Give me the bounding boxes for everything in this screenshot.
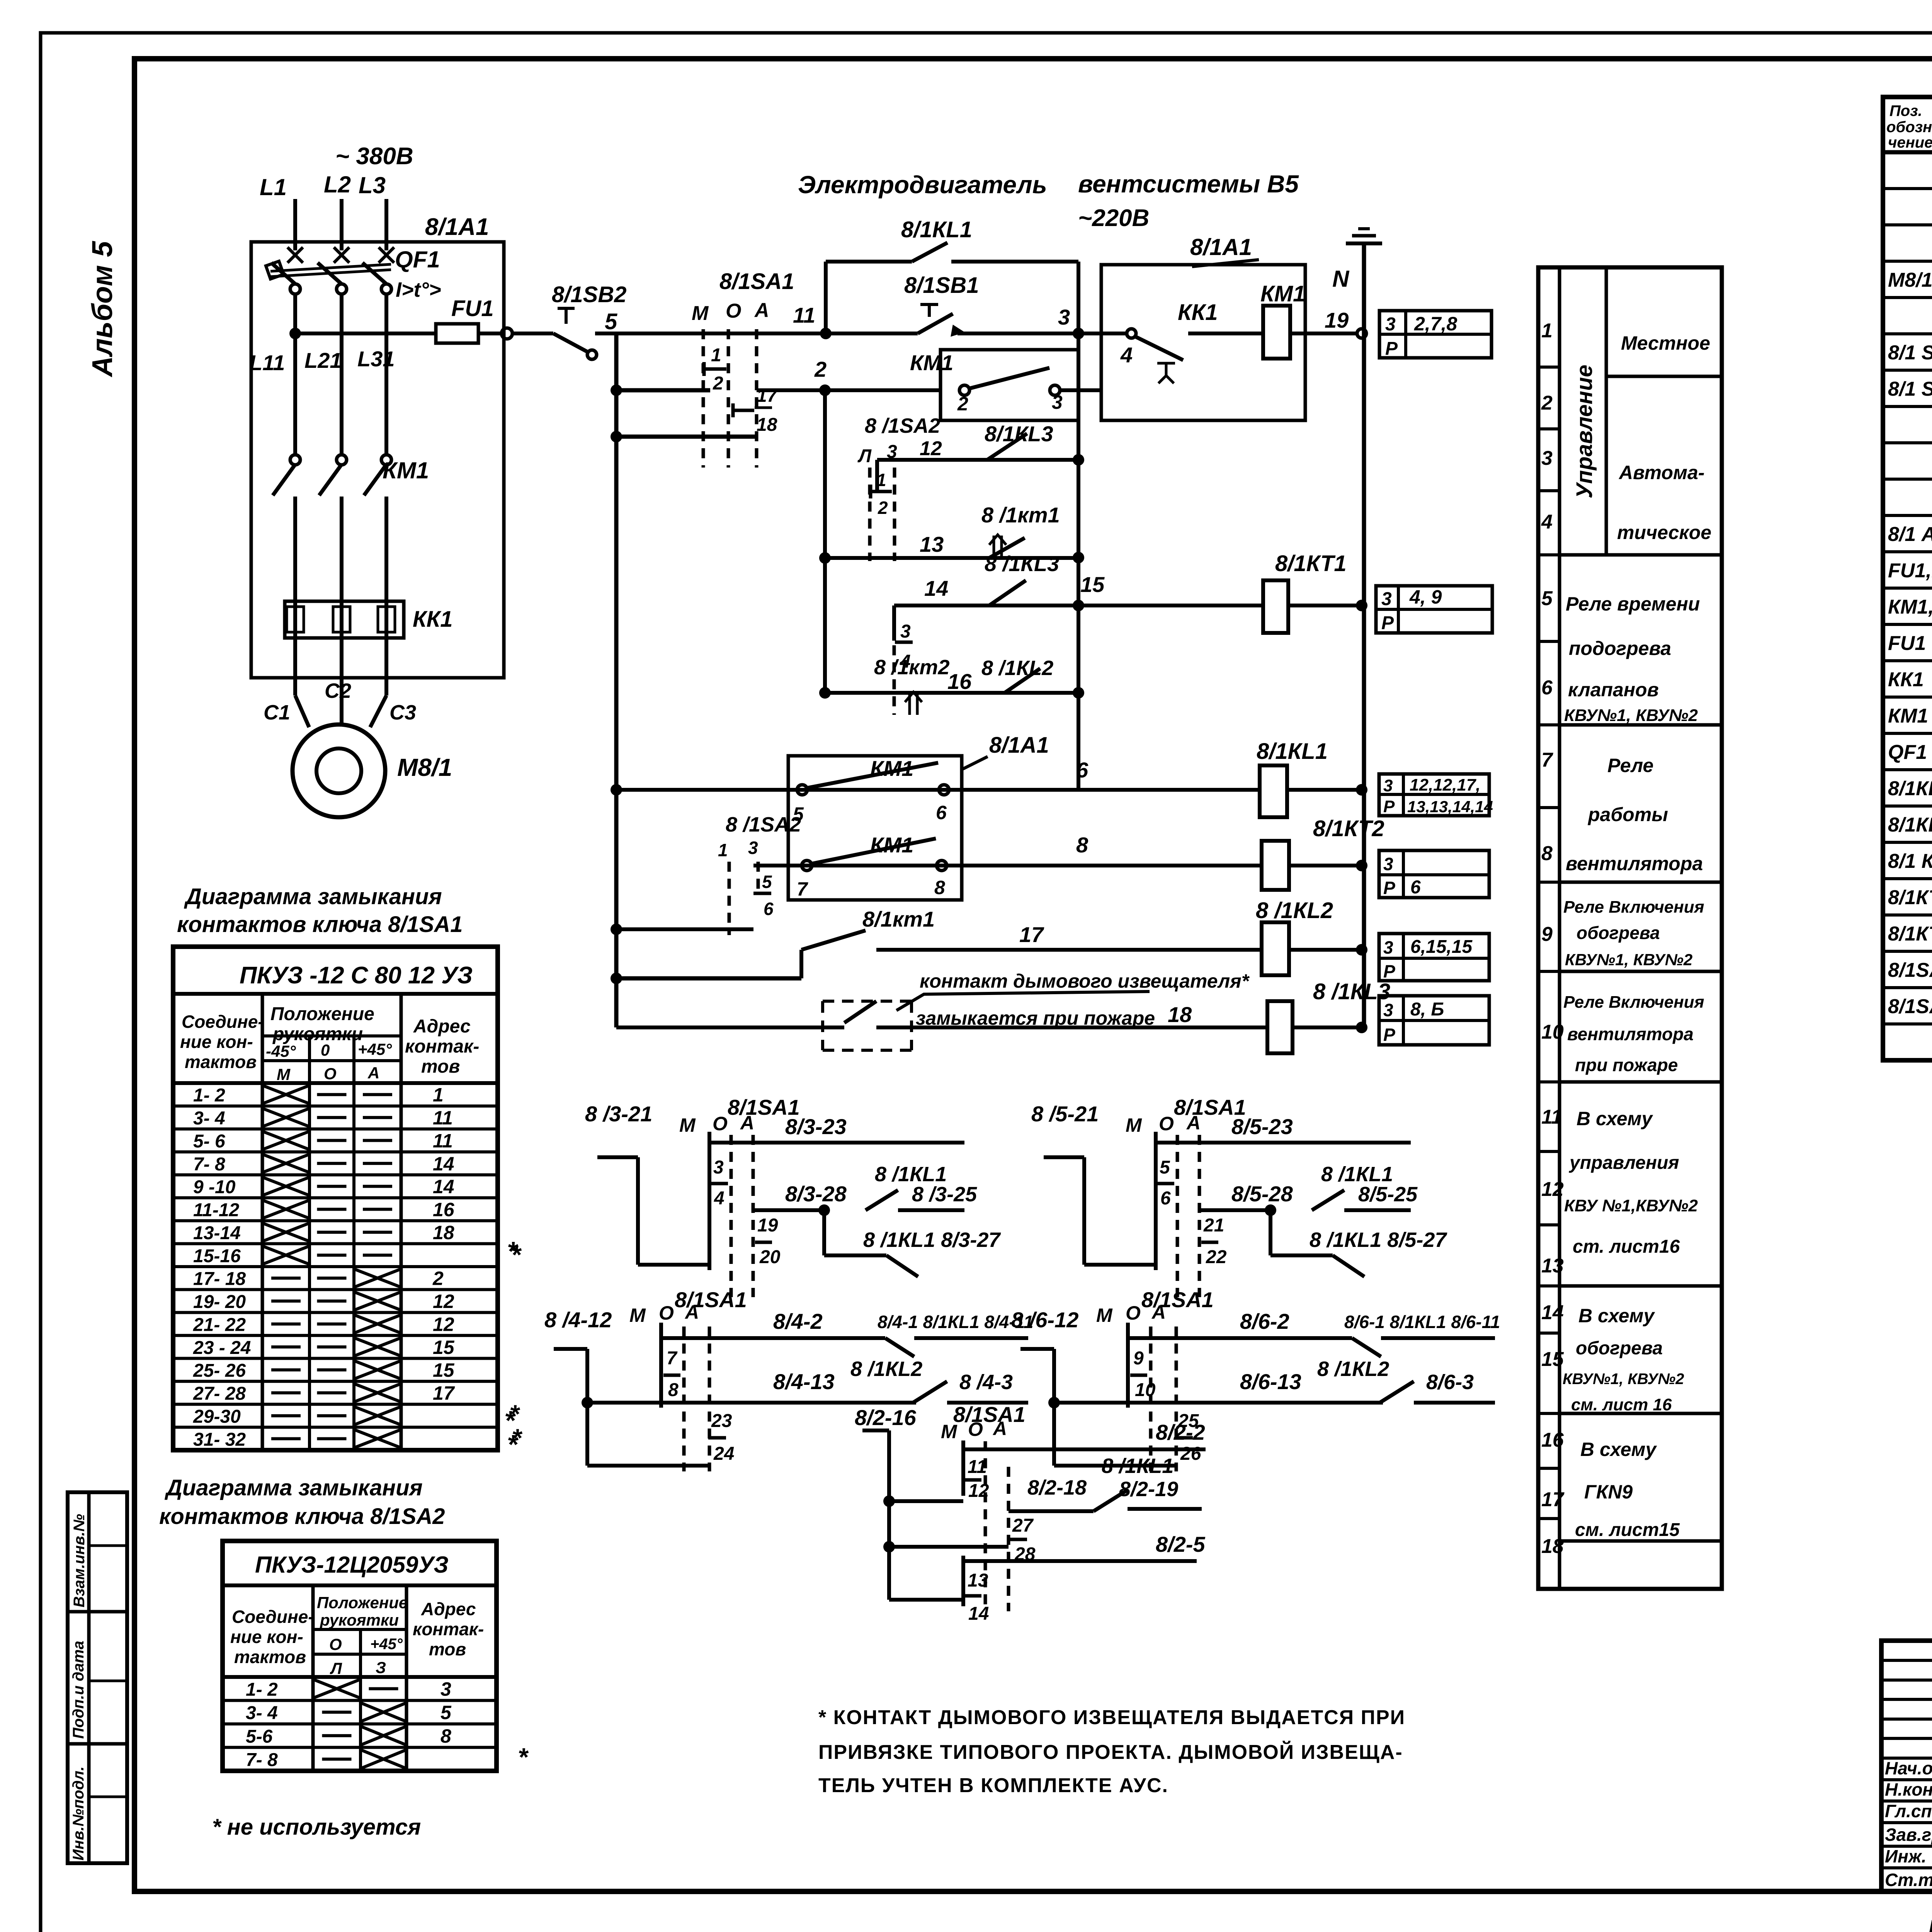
svg-text:см. лист 16: см. лист 16 [1571,1395,1672,1414]
smoke detector contact (dashed box) [823,1000,912,1003]
svg-text:22: 22 [1206,1247,1227,1267]
svg-text:2: 2 [432,1268,444,1289]
svg-text:КМ1: КМ1 [383,457,429,483]
svg-text:2,7,8: 2,7,8 [1414,313,1457,335]
svg-text:тическое: тическое [1617,522,1711,543]
wire 8/2-18 to 8/2-19 [1009,1509,1094,1513]
timed contact 8/1KT2 [905,692,922,715]
svg-text:13,13,14,14: 13,13,14,14 [1407,798,1493,816]
svg-text:Положение: Положение [317,1594,408,1612]
svg-text:3: 3 [900,621,911,642]
svg-text:16: 16 [1541,1429,1564,1451]
svg-text:тов: тов [429,1639,466,1659]
svg-text:Р: Р [1383,961,1395,981]
svg-text:8 /1КL3: 8 /1КL3 [985,551,1059,576]
svg-text:В схему: В схему [1578,1305,1655,1327]
svg-text:А: А [754,299,769,321]
svg-text:О: О [713,1113,728,1134]
svg-text:6: 6 [1410,877,1421,898]
svg-text:12: 12 [433,1313,454,1335]
svg-text:8/2-18: 8/2-18 [1027,1476,1087,1499]
rung 16 wire [825,691,1078,695]
svg-text:Р: Р [1381,613,1394,633]
svg-text:6,15,15: 6,15,15 [1410,937,1473,957]
svg-text:Реле Включения: Реле Включения [1563,898,1704,917]
address box rung1 [1379,311,1492,358]
rung 3 wire (SA1 17-18 return) [616,435,755,439]
svg-text:замыкается при пожаре: замыкается при пожаре [916,1007,1155,1029]
svg-text:Местное: Местное [1621,332,1710,354]
svg-text:8/4-1 8/1КL1 8/4-11: 8/4-1 8/1КL1 8/4-11 [878,1312,1033,1332]
svg-text:3: 3 [440,1678,451,1700]
wire fuse to node [478,332,502,335]
svg-text:8/6-13: 8/6-13 [1240,1369,1301,1394]
svg-text:11: 11 [433,1130,453,1151]
svg-text:М: М [692,302,709,325]
svg-text:5-6: 5-6 [246,1726,273,1747]
svg-text:FU1,КК1,: FU1,КК1, [1888,560,1932,582]
svg-text:QF1: QF1 [395,247,440,272]
svg-text:L1: L1 [260,174,287,200]
svg-text:8 /1кт1: 8 /1кт1 [981,503,1060,527]
left control rail [614,333,619,1027]
ground symbol [1362,243,1366,338]
svg-text:тактов: тактов [185,1052,257,1072]
left margin stamp strip [68,1492,127,1863]
svg-text:17- 18: 17- 18 [193,1269,246,1289]
svg-text:14: 14 [1541,1301,1564,1324]
svg-text:14: 14 [433,1176,454,1197]
svg-text:чение: чение [1888,134,1932,151]
svg-text:обозна-: обозна- [1886,119,1932,136]
svg-text:Автома-: Автома- [1618,462,1704,483]
svg-text:О: О [1159,1113,1174,1134]
svg-text:1: 1 [711,345,721,366]
svg-text:13: 13 [920,532,944,556]
svg-text:3: 3 [1052,391,1063,413]
svg-text:12: 12 [920,437,942,460]
svg-text:23: 23 [711,1411,732,1431]
SA1 contact 17-18 tick [733,409,754,412]
svg-text:25- 26: 25- 26 [193,1361,246,1381]
svg-text:FU1: FU1 [451,296,494,321]
svg-text:Р: Р [1385,338,1398,359]
address box rung15 [1376,586,1492,633]
svg-text:14: 14 [433,1153,454,1175]
svg-text:+45°: +45° [358,1040,392,1058]
svg-text:КВУ №1,КВУ№2: КВУ №1,КВУ№2 [1564,1196,1698,1215]
svg-text:тактов: тактов [234,1647,306,1667]
svg-text:вентилятора: вентилятора [1566,853,1703,874]
svg-text:Инв.№подл.: Инв.№подл. [70,1766,87,1861]
svg-text:1: 1 [718,840,728,860]
svg-text:4: 4 [1541,511,1553,533]
svg-text:24: 24 [713,1444,734,1464]
svg-text:15: 15 [1541,1348,1564,1371]
svg-text:L3: L3 [359,172,386,198]
phase feed wires L1 L2 L3 [293,199,297,250]
title block [1881,1641,1932,1891]
svg-text:9 -10: 9 -10 [193,1177,236,1197]
svg-text:8 /1КL2: 8 /1КL2 [981,656,1053,680]
svg-text:20: 20 [759,1247,781,1267]
svg-text:8/1SB1: 8/1SB1 [904,273,979,298]
function table rows 1-18 [1538,267,1722,1589]
svg-text:8 /1КL2: 8 /1КL2 [1256,898,1333,923]
rung 14-15 wire [894,604,1263,607]
SA1 contact 3-4 tick [892,605,896,641]
svg-text:С2: С2 [325,679,351,702]
svg-text:8/2-2: 8/2-2 [1156,1420,1205,1444]
svg-text:3: 3 [1383,854,1393,874]
svg-text:ТЕЛЬ УЧТЕН В КОМПЛЕКТЕ АУС.: ТЕЛЬ УЧТЕН В КОМПЛЕКТЕ АУС. [818,1774,1168,1797]
svg-text:КК1: КК1 [413,607,453,632]
svg-text:8/6-1 8/1КL1 8/6-11: 8/6-1 8/1КL1 8/6-11 [1344,1312,1500,1332]
rung 18 wire [616,1026,844,1029]
svg-text:16: 16 [433,1199,455,1221]
wire 8/2-2 [963,1447,1206,1451]
svg-text:Р: Р [1383,1025,1395,1045]
svg-text:8/1SA2: 8/1SA2 [1888,995,1932,1018]
svg-text:4: 4 [714,1188,724,1209]
svg-text:ние кон-: ние кон- [230,1627,303,1647]
svg-text:Взам.инв.№: Взам.инв.№ [71,1514,88,1607]
svg-text:М: М [1126,1114,1142,1136]
svg-text:5: 5 [1160,1157,1170,1178]
svg-text:1- 2: 1- 2 [246,1679,278,1700]
svg-text:рукоятки: рукоятки [272,1024,363,1044]
svg-text:N: N [1332,266,1350,292]
svg-text:8/4-13: 8/4-13 [773,1369,835,1394]
svg-text:5- 6: 5- 6 [193,1131,225,1151]
svg-text:ПКУЗ-12Ц2059УЗ: ПКУЗ-12Ц2059УЗ [255,1552,449,1578]
diagram table SA1 [173,947,498,1450]
motor leads C1 C2 C3 [293,638,297,696]
svg-text:8/3-28: 8/3-28 [785,1182,847,1206]
thermal relay KK1 heaters [285,601,404,638]
svg-text:ПКУЗ -12 С 80 12 УЗ: ПКУЗ -12 С 80 12 УЗ [240,962,473,989]
svg-text:М: М [1096,1304,1113,1326]
svg-text:Соедине-: Соедине- [232,1607,314,1627]
svg-text:10: 10 [1541,1021,1564,1043]
svg-text:6: 6 [936,802,947,823]
svg-text:16: 16 [947,669,972,694]
svg-text:работы: работы [1587,804,1668,825]
svg-text:17: 17 [1019,922,1044,947]
svg-text:Реле: Реле [1607,755,1653,776]
svg-text:8 /5-21: 8 /5-21 [1031,1102,1099,1126]
svg-text:О: О [324,1065,337,1083]
svg-text:2: 2 [713,373,723,394]
svg-text:*: * [512,1423,523,1452]
svg-text:17: 17 [433,1383,455,1404]
svg-text:11: 11 [968,1457,987,1477]
svg-text:В схему: В схему [1580,1439,1657,1460]
svg-text:8/1 А1: 8/1 А1 [1888,523,1932,546]
vertical feeder x2135 [823,390,827,693]
node L11 bus junction [289,328,301,339]
svg-text:8/1КТ2: 8/1КТ2 [1313,816,1384,841]
svg-text:8/5-28: 8/5-28 [1231,1182,1293,1206]
svg-text:Реле Включения: Реле Включения [1563,993,1704,1012]
svg-text:3: 3 [1383,1000,1393,1020]
svg-text:8/1 SB2: 8/1 SB2 [1888,378,1932,400]
rung 1 wire [616,332,918,335]
svg-text:13-14: 13-14 [193,1223,241,1243]
svg-text:19: 19 [1325,308,1349,332]
svg-text:19: 19 [757,1215,778,1236]
svg-text:3: 3 [713,1157,724,1178]
svg-text:Гл.спец.: Гл.спец. [1885,1801,1932,1821]
KM1 aux contact 7-8 [802,861,812,871]
svg-text:~220В: ~220В [1078,205,1149,231]
svg-text:М: М [629,1304,646,1326]
svg-text:L11: L11 [249,350,285,375]
svg-text:Нач.отд.: Нач.отд. [1885,1758,1932,1778]
svg-text:при пожаре: при пожаре [1575,1055,1678,1075]
svg-text:15: 15 [433,1359,455,1381]
svg-text:L2: L2 [324,172,351,197]
svg-text:3: 3 [1383,937,1393,957]
svg-text:8/1КL1: 8/1КL1 [1888,777,1932,800]
svg-text:8 /1кт2: 8 /1кт2 [874,656,950,679]
svg-text:27: 27 [1012,1515,1034,1536]
svg-text:14: 14 [968,1604,989,1624]
svg-text:8: 8 [668,1380,679,1400]
SA2 feeder stub [611,923,622,935]
svg-text:ПРИВЯЗКЕ ТИПОВОГО ПРОЕКТА. ДЫ: ПРИВЯЗКЕ ТИПОВОГО ПРОЕКТА. ДЫМОВОЙ ИЗВЕЩ… [818,1741,1403,1764]
svg-text:5: 5 [1541,587,1553,610]
address box rung17 [1379,934,1489,981]
svg-text:8/5-23: 8/5-23 [1231,1114,1293,1139]
svg-text:КК1: КК1 [1888,668,1924,691]
svg-text:8 /3-21: 8 /3-21 [585,1102,652,1126]
svg-text:8 /1SA2: 8 /1SA2 [726,813,801,836]
svg-text:5: 5 [762,872,772,892]
svg-text:контак-: контак- [413,1619,484,1639]
svg-text:Зав.гр.: Зав.гр. [1885,1825,1932,1845]
svg-text:3: 3 [1383,776,1393,795]
svg-text:8/1кт1: 8/1кт1 [862,907,935,931]
svg-text:КВУ№1, КВУ№2: КВУ№1, КВУ№2 [1564,706,1698,725]
svg-text:М: М [277,1065,291,1083]
svg-text:21- 22: 21- 22 [193,1315,246,1335]
wires below QF1 [293,294,297,455]
svg-text:18: 18 [1168,1002,1192,1027]
svg-text:А: А [684,1301,699,1323]
svg-text:6: 6 [1160,1188,1171,1209]
svg-text:11-12: 11-12 [193,1200,240,1221]
svg-text:8 /1КL2: 8 /1КL2 [850,1357,922,1381]
svg-text:8/1 SB1: 8/1 SB1 [1888,342,1932,364]
svg-text:8/1 КL3: 8/1 КL3 [1888,850,1932,872]
svg-text:8/1А1: 8/1А1 [989,733,1049,758]
svg-text:8/5-25: 8/5-25 [1358,1183,1418,1206]
svg-text:8: 8 [1541,842,1553,865]
svg-text:26: 26 [1180,1444,1201,1464]
svg-text:Соедине-: Соедине- [182,1012,264,1032]
svg-text:18: 18 [433,1222,454,1243]
svg-text:8/1КL2: 8/1КL2 [1888,814,1932,836]
svg-text:контакт дымового извещателя*: контакт дымового извещателя* [920,970,1250,992]
svg-text:Копировал: Копировал [1928,1915,1932,1932]
svg-text:17: 17 [1541,1488,1565,1511]
svg-text:3: 3 [1058,305,1070,329]
rung 13 wire [825,556,1078,560]
svg-text:2: 2 [1541,392,1553,414]
svg-text:11: 11 [1541,1106,1562,1128]
svg-text:12: 12 [968,1481,989,1501]
contactor coil KM1 [1263,306,1290,359]
svg-text:М8/1: М8/1 [397,753,452,781]
svg-text:Л: Л [330,1659,342,1677]
fuse FU1 [436,324,478,343]
svg-text:*: * [518,1743,529,1771]
svg-text:8 /3-25: 8 /3-25 [912,1183,977,1206]
svg-text:12: 12 [1541,1178,1564,1201]
svg-text:15-16: 15-16 [193,1246,241,1266]
svg-text:12,12,17,: 12,12,17, [1410,776,1481,794]
rung 12 wire [877,458,1078,462]
svg-text:8/2-19: 8/2-19 [1119,1478,1178,1501]
svg-text:обогрева: обогрева [1576,1338,1663,1359]
svg-text:4: 4 [1120,343,1133,367]
svg-text:15: 15 [1080,572,1105,597]
svg-text:8/1SA1: 8/1SA1 [953,1402,1026,1427]
circuit breaker QF1 [287,247,303,263]
svg-text:8/2-5: 8/2-5 [1156,1532,1205,1556]
svg-text:13: 13 [968,1570,988,1591]
svg-text:вентсистемы В5: вентсистемы В5 [1078,170,1299,198]
svg-text:М: М [679,1114,696,1136]
KM1 aux contact 2-3 [959,385,969,395]
rung 8 wire [753,864,1262,867]
svg-text:8/6-2: 8/6-2 [1240,1309,1289,1333]
svg-text:14: 14 [924,576,948,600]
svg-text:Инж.: Инж. [1885,1846,1927,1866]
svg-text:КВУ№1, КВУ№2: КВУ№1, КВУ№2 [1565,951,1692,969]
svg-text:клапанов: клапанов [1568,679,1659,701]
svg-text:1: 1 [1541,320,1553,342]
svg-text:7: 7 [667,1348,678,1369]
svg-text:18: 18 [757,415,777,435]
svg-text:8/1КL3: 8/1КL3 [985,422,1053,446]
svg-text:5: 5 [605,309,617,334]
address box rung6 [1379,774,1489,816]
svg-text:9: 9 [1541,923,1553,946]
svg-text:КМ1: КМ1 [1260,281,1305,306]
svg-text:21: 21 [1203,1215,1224,1236]
svg-text:8/1SB2: 8/1SB2 [552,282,626,307]
svg-text:18: 18 [1541,1535,1564,1558]
svg-text:управления: управления [1569,1153,1679,1173]
svg-text:8: 8 [440,1725,451,1747]
svg-text:КМ1: КМ1 [1888,705,1928,727]
svg-text:8/1А1: 8/1А1 [425,214,489,240]
svg-text:контактов ключа 8/1SA1: контактов ключа 8/1SA1 [177,912,463,937]
svg-text:1- 2: 1- 2 [193,1085,225,1106]
svg-text:15: 15 [433,1337,455,1358]
svg-text:Адрес: Адрес [413,1016,471,1037]
rung 17 wire [616,976,801,981]
address box rung8 [1379,850,1489,898]
svg-text:L31: L31 [357,347,395,371]
svg-text:тов: тов [421,1056,460,1077]
svg-text:А: А [740,1112,754,1134]
svg-text:7- 8: 7- 8 [246,1750,278,1770]
svg-text:8 /1КL2: 8 /1КL2 [1317,1357,1389,1381]
wire to control rail [595,332,616,335]
svg-text:8: 8 [934,877,945,898]
SA1 contact 13-14 tick [961,1556,965,1606]
bus wire to fuse [295,332,436,335]
svg-text:7: 7 [1541,749,1553,771]
svg-text:А: А [1186,1112,1201,1134]
svg-text:FU1: FU1 [1888,632,1926,655]
svg-text:КК1: КК1 [1178,300,1218,325]
svg-text:8/2-16: 8/2-16 [855,1405,917,1430]
svg-text:*: * [511,1240,522,1269]
svg-text:8/6-3: 8/6-3 [1426,1371,1474,1394]
svg-text:8: 8 [1076,833,1088,857]
svg-text:3: 3 [748,838,758,858]
svg-text:10: 10 [1135,1380,1156,1400]
svg-text:Положение: Положение [270,1004,374,1024]
svg-text:11: 11 [433,1107,453,1129]
svg-text:Электродвигатель: Электродвигатель [798,171,1047,199]
svg-text:6: 6 [764,899,774,919]
svg-text:см. лист15: см. лист15 [1575,1520,1680,1540]
svg-text:Подп.и дата: Подп.и дата [70,1641,87,1739]
svg-text:8/1А1: 8/1А1 [1190,234,1252,260]
svg-text:11: 11 [793,303,815,327]
svg-text:КМ1,QF1: КМ1,QF1 [1888,596,1932,618]
svg-text:8/4-2: 8/4-2 [773,1309,823,1333]
svg-text:Альбом 5: Альбом 5 [86,240,118,378]
svg-text:QF1: QF1 [1888,741,1927,764]
control unit box 8/1A1 (power section) [251,242,504,678]
svg-text:О: О [726,300,741,322]
svg-text:3- 4: 3- 4 [246,1703,278,1723]
svg-text:Управление: Управление [1572,365,1597,498]
rung 6 wire [616,788,1260,792]
svg-text:1: 1 [433,1084,444,1106]
svg-text:С1: С1 [264,701,290,724]
svg-text:8/1КТ1: 8/1КТ1 [1275,551,1347,576]
svg-text:19- 20: 19- 20 [193,1292,246,1312]
svg-text:О: О [1126,1302,1141,1324]
svg-text:Л: Л [857,446,872,466]
svg-text:* не используется: * не используется [212,1815,421,1840]
wire 8/2-5 [962,1559,1197,1563]
svg-text:12: 12 [433,1291,454,1312]
svg-text:8 /1SA2: 8 /1SA2 [865,414,940,437]
svg-text:L21: L21 [304,348,342,372]
svg-text:Р: Р [1383,797,1395,816]
svg-text:23 - 24: 23 - 24 [193,1338,251,1358]
svg-text:8 /1КL1: 8 /1КL1 [1321,1163,1393,1186]
svg-text:8 /1КL1: 8 /1КL1 [875,1163,947,1186]
svg-text:8/3-23: 8/3-23 [785,1114,847,1139]
SA1 contact 1-2 tick [704,367,726,371]
svg-text:А: А [1151,1301,1166,1323]
svg-text:контактов ключа 8/1SA2: контактов ключа 8/1SA2 [159,1504,445,1529]
motor M8/1 [293,724,385,817]
svg-text:6: 6 [1076,758,1088,782]
svg-text:9: 9 [1133,1348,1144,1369]
node 11 [820,328,832,339]
svg-text:~ 380В: ~ 380В [335,143,413,170]
